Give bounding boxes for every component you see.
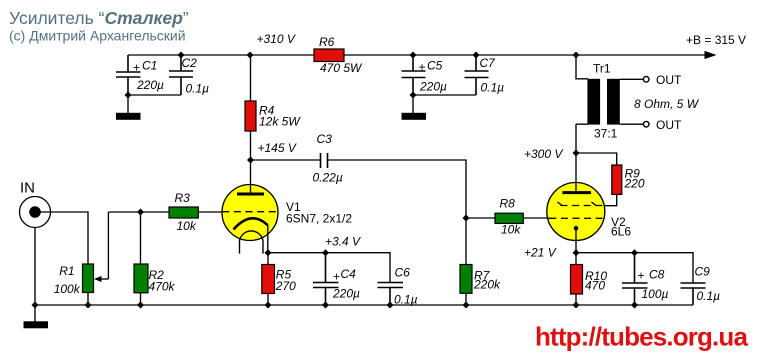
svg-text:8 Ohm, 5 W: 8 Ohm, 5 W xyxy=(634,97,700,111)
wire jack to R1 top xyxy=(40,212,88,264)
node rail C8 xyxy=(631,302,638,309)
V1 cathode arc xyxy=(234,218,268,229)
input jack IN xyxy=(20,180,51,228)
svg-text:C8: C8 xyxy=(649,268,665,282)
V1 plate bar xyxy=(237,193,264,196)
svg-text:OUT: OUT xyxy=(656,73,682,87)
node rail R7 xyxy=(463,302,470,309)
capacitor C8 xyxy=(622,253,669,305)
svg-text:220µ: 220µ xyxy=(419,80,447,94)
wire jack ground lead xyxy=(34,228,36,306)
svg-text:C6: C6 xyxy=(395,266,411,280)
svg-text:+310 V: +310 V xyxy=(257,32,296,46)
node rail C6 xyxy=(387,302,394,309)
node C4 top xyxy=(322,249,329,256)
transformer Tr1 xyxy=(576,55,700,153)
svg-text:+: + xyxy=(133,61,140,75)
wire C1-C2 bottom node xyxy=(128,94,181,96)
R1 wiper riser xyxy=(107,212,109,279)
wire V1 cathode node rail xyxy=(268,253,390,283)
svg-text:0.1µ: 0.1µ xyxy=(481,81,505,95)
node R8/R7 xyxy=(463,215,470,222)
wire C5-C7 bottom node xyxy=(413,94,476,96)
node rail R5 xyxy=(265,302,272,309)
svg-text:C7: C7 xyxy=(480,56,497,70)
svg-text:12k 5W: 12k 5W xyxy=(259,115,301,129)
V2 cathode dot xyxy=(574,226,579,231)
V2 screen to R9 xyxy=(604,194,617,205)
svg-text:470: 470 xyxy=(585,279,605,293)
svg-text:+21 V: +21 V xyxy=(524,246,557,260)
V2 plate lead xyxy=(575,153,577,193)
V2 plate bar xyxy=(562,191,591,194)
svg-text:100µ: 100µ xyxy=(642,287,669,301)
svg-text:220k: 220k xyxy=(473,278,501,292)
svg-text:0.22µ: 0.22µ xyxy=(313,171,343,185)
resistor R10 xyxy=(571,253,608,305)
svg-text:+: + xyxy=(333,270,340,284)
capacitor C9 xyxy=(681,265,721,306)
capacitor C6 xyxy=(378,266,418,307)
svg-text:270: 270 xyxy=(275,279,296,293)
resistor R6 xyxy=(314,35,363,75)
ground main xyxy=(24,305,49,328)
R1 bottom lead xyxy=(87,293,89,306)
ground C5 xyxy=(402,95,427,120)
svg-text:C5: C5 xyxy=(427,59,443,73)
Tr1 secondary wires xyxy=(620,79,644,124)
svg-text:100k: 100k xyxy=(54,282,81,296)
node rail R1 xyxy=(85,302,92,309)
svg-text:6L6: 6L6 xyxy=(611,224,631,238)
wire top rail +310V xyxy=(128,54,705,56)
svg-text:220µ: 220µ xyxy=(136,78,164,92)
svg-text:10k: 10k xyxy=(501,223,521,237)
svg-text:R6: R6 xyxy=(319,35,335,49)
node C5 top xyxy=(410,52,417,59)
svg-text:R3: R3 xyxy=(175,191,191,205)
V1 grid (dashed) xyxy=(222,211,277,213)
node C5 bottom xyxy=(410,92,417,99)
svg-text:+300 V: +300 V xyxy=(524,147,563,161)
tube V1 xyxy=(222,160,352,254)
svg-text:http://tubes.org.ua: http://tubes.org.ua xyxy=(535,322,748,352)
capacitor C3 xyxy=(313,132,343,185)
node +21V xyxy=(573,249,580,256)
tube V2 xyxy=(547,153,632,253)
resistor R9 xyxy=(612,165,645,194)
Tr1 primary bar xyxy=(587,79,600,125)
V1 cathode lead xyxy=(267,225,269,253)
wire R3 to V1 grid xyxy=(198,211,222,213)
svg-text:+145 V: +145 V xyxy=(258,141,297,155)
V2 cathode lead xyxy=(575,228,577,253)
svg-text:470 5W: 470 5W xyxy=(320,61,363,75)
resistor R8 xyxy=(466,197,548,237)
resistor R5 xyxy=(262,253,296,305)
node V1 cathode xyxy=(265,249,272,256)
svg-text:C2: C2 xyxy=(182,56,198,70)
svg-text:(с) Дмитрий Архангельский: (с) Дмитрий Архангельский xyxy=(9,28,186,44)
arrow +B rail end xyxy=(705,51,717,59)
node C7 top xyxy=(473,52,480,59)
node C1 bottom xyxy=(125,92,132,99)
wire +145V to C3 xyxy=(251,159,321,161)
node +300V xyxy=(573,150,580,157)
svg-text:0.1µ: 0.1µ xyxy=(394,293,418,307)
capacitor C5 xyxy=(402,55,448,95)
svg-text:C4: C4 xyxy=(341,267,357,281)
R1 wiper arrow xyxy=(94,276,102,282)
wire +300V to R9 xyxy=(576,153,617,165)
node Tr1 top xyxy=(573,52,580,59)
wire +21V node rail xyxy=(576,253,693,283)
node rail R2 xyxy=(137,302,144,309)
svg-text:R1: R1 xyxy=(59,264,74,278)
OUT terminal bottom xyxy=(643,121,649,127)
node R4 top xyxy=(247,52,254,59)
wire bottom ground rail xyxy=(35,304,693,306)
V2 control grid xyxy=(549,217,602,219)
resistor R3 xyxy=(169,191,198,233)
svg-text:Усилитель “Сталкер”: Усилитель “Сталкер” xyxy=(9,8,189,28)
svg-text:Tr1: Tr1 xyxy=(593,62,611,76)
svg-text:+: + xyxy=(638,269,645,283)
svg-text:470k: 470k xyxy=(149,280,176,294)
node rail gnd xyxy=(32,302,39,309)
V1 heater legs xyxy=(240,241,264,254)
wire R8 to V2 grid xyxy=(548,217,551,219)
ground C1 xyxy=(116,95,141,120)
node rail R10 xyxy=(573,302,580,309)
resistor R2 xyxy=(134,212,176,305)
resistor R4 xyxy=(245,55,301,160)
capacitor C2 xyxy=(169,55,209,96)
resistor R7 xyxy=(460,218,501,305)
svg-text:OUT: OUT xyxy=(656,118,682,132)
Tr1 secondary bar xyxy=(607,79,620,125)
svg-text:+: + xyxy=(419,60,426,74)
node rail C4 xyxy=(322,302,329,309)
V2 screen grid xyxy=(561,205,605,207)
svg-text:220µ: 220µ xyxy=(332,287,360,301)
capacitor C4 xyxy=(313,253,360,305)
svg-text:+3.4 V: +3.4 V xyxy=(325,235,361,249)
svg-text:37:1: 37:1 xyxy=(594,127,618,141)
svg-text:C3: C3 xyxy=(317,132,333,146)
Tr1 primary wires xyxy=(576,55,588,153)
V1 heater dome xyxy=(240,231,264,241)
svg-text:C1: C1 xyxy=(142,59,157,73)
svg-text:6SN7, 2x1/2: 6SN7, 2x1/2 xyxy=(286,211,352,225)
node C8 top xyxy=(631,249,638,256)
node +145V xyxy=(247,157,254,164)
capacitor C7 xyxy=(465,55,505,95)
wire grid rail (wiper to R3) xyxy=(108,211,169,213)
wire C3 to R8 node xyxy=(328,160,467,218)
OUT terminal top xyxy=(643,77,649,83)
potentiometer R1 xyxy=(54,212,109,305)
svg-text:IN: IN xyxy=(20,180,35,197)
V1 plate lead xyxy=(250,160,252,194)
svg-text:C9: C9 xyxy=(695,265,711,279)
svg-text:+B = 315 V: +B = 315 V xyxy=(686,33,746,47)
capacitor C1 xyxy=(116,55,164,95)
svg-text:0.1µ: 0.1µ xyxy=(697,289,721,303)
svg-text:R8: R8 xyxy=(500,197,516,211)
svg-text:220: 220 xyxy=(624,177,645,191)
node C2 top xyxy=(178,52,185,59)
svg-text:10k: 10k xyxy=(177,219,197,233)
svg-text:0.1µ: 0.1µ xyxy=(186,82,210,96)
node R2 top xyxy=(137,209,144,216)
